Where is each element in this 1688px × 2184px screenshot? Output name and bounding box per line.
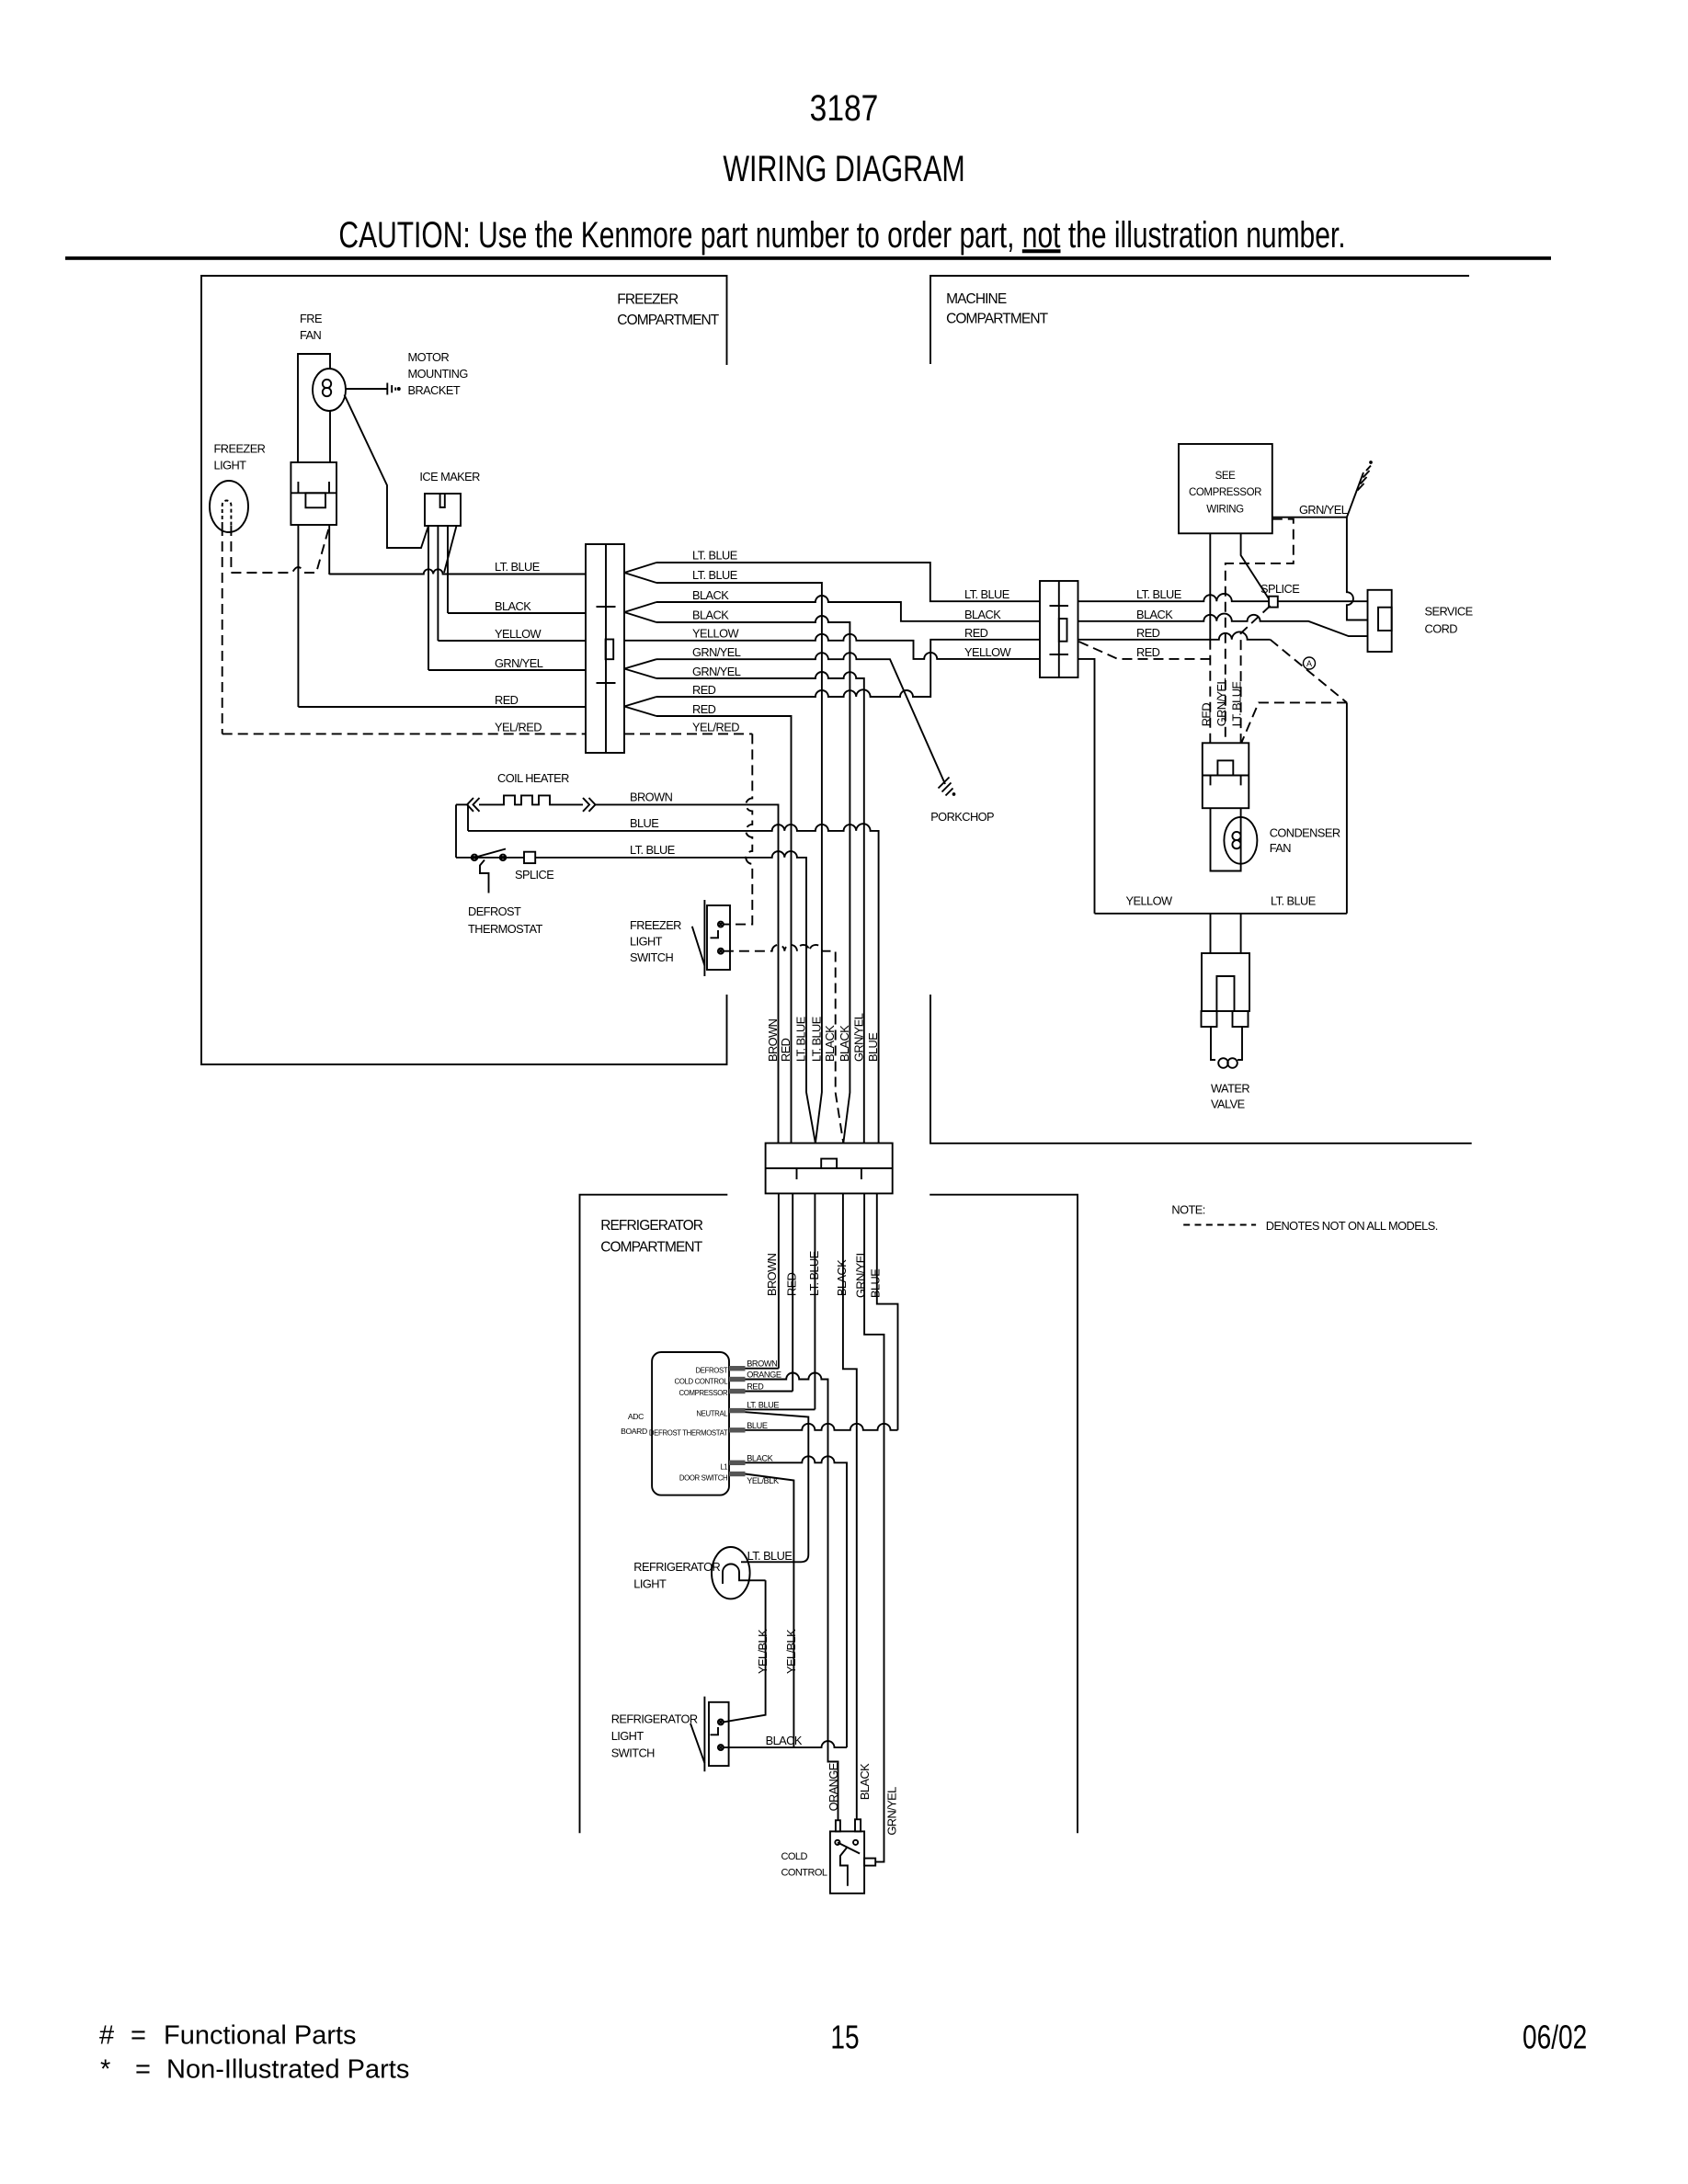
svg-text:ORANGE: ORANGE — [827, 1763, 840, 1811]
svg-text:LT. BLUE: LT. BLUE — [809, 1017, 823, 1062]
svg-text:BLACK: BLACK — [838, 1025, 851, 1062]
svg-text:BLACK: BLACK — [964, 608, 1001, 621]
svg-text:RED: RED — [785, 1272, 799, 1296]
svg-text:LT. BLUE: LT. BLUE — [807, 1251, 821, 1296]
svg-text:RED: RED — [1136, 626, 1160, 640]
svg-text:LT. BLUE: LT. BLUE — [747, 1549, 793, 1563]
svg-text:YEL/RED: YEL/RED — [495, 720, 542, 734]
svg-text:COMPARTMENT: COMPARTMENT — [946, 312, 1049, 327]
svg-text:FREEZER: FREEZER — [214, 441, 266, 455]
svg-text:MACHINE: MACHINE — [946, 291, 1007, 307]
svg-text:LIGHT: LIGHT — [611, 1729, 644, 1743]
svg-text:RED: RED — [692, 683, 716, 697]
svg-text:L1: L1 — [720, 1462, 727, 1471]
svg-text:15: 15 — [830, 2019, 859, 2055]
svg-text:WATER: WATER — [1211, 1082, 1249, 1096]
svg-text:REFRIGERATOR: REFRIGERATOR — [611, 1712, 698, 1726]
svg-text:DENOTES NOT ON ALL MODELS.: DENOTES NOT ON ALL MODELS. — [1266, 1219, 1438, 1233]
svg-text:LT. BLUE: LT. BLUE — [1230, 682, 1244, 727]
svg-text:NEUTRAL: NEUTRAL — [696, 1410, 728, 1418]
svg-text:BLUE: BLUE — [866, 1033, 880, 1062]
svg-text:LT. BLUE: LT. BLUE — [1136, 587, 1181, 601]
svg-text:GRN/YEL: GRN/YEL — [692, 645, 741, 659]
svg-text:REFRIGERATOR: REFRIGERATOR — [600, 1218, 703, 1234]
svg-text:BLACK: BLACK — [747, 1453, 773, 1462]
svg-text:WIRING DIAGRAM: WIRING DIAGRAM — [723, 148, 964, 189]
svg-text:BLACK: BLACK — [823, 1025, 837, 1062]
svg-text:SPLICE: SPLICE — [1260, 582, 1299, 596]
svg-text:ORANGE: ORANGE — [747, 1371, 781, 1380]
svg-text:THERMOSTAT: THERMOSTAT — [468, 922, 542, 936]
svg-text:BLACK: BLACK — [692, 609, 729, 622]
svg-text:YELLOW: YELLOW — [495, 627, 542, 641]
svg-text:BLACK: BLACK — [495, 599, 531, 613]
svg-text:=: = — [131, 2020, 146, 2050]
svg-text:LIGHT: LIGHT — [214, 459, 247, 472]
svg-text:COLD: COLD — [781, 1851, 808, 1862]
svg-text:BLUE: BLUE — [630, 816, 658, 830]
svg-text:RED: RED — [1136, 645, 1160, 659]
svg-text:RED: RED — [692, 702, 716, 716]
svg-text:YEL/RED: YEL/RED — [692, 720, 739, 734]
svg-text:RED: RED — [747, 1382, 764, 1392]
svg-text:FAN: FAN — [300, 328, 322, 342]
svg-text:COIL HEATER: COIL HEATER — [497, 771, 569, 785]
svg-text:BRACKET: BRACKET — [408, 383, 461, 397]
svg-text:LT. BLUE: LT. BLUE — [630, 843, 675, 857]
svg-text:RED: RED — [779, 1038, 793, 1062]
svg-text:RED: RED — [495, 693, 519, 707]
svg-text:DOOR SWITCH: DOOR SWITCH — [679, 1474, 727, 1483]
svg-text:Functional Parts: Functional Parts — [164, 2020, 357, 2050]
svg-text:DEFROST: DEFROST — [468, 904, 521, 918]
svg-text:LT. BLUE: LT. BLUE — [692, 549, 737, 563]
svg-text:GRN/YEL: GRN/YEL — [692, 665, 741, 678]
svg-text:GRN/YEL: GRN/YEL — [495, 656, 543, 670]
svg-text:FAN: FAN — [1270, 841, 1292, 855]
svg-text:=: = — [135, 2054, 151, 2084]
svg-text:ICE MAKER: ICE MAKER — [419, 470, 480, 483]
svg-text:BLACK: BLACK — [1136, 608, 1173, 621]
svg-text:06/02: 06/02 — [1523, 2019, 1587, 2055]
svg-text:Non-Illustrated Parts: Non-Illustrated Parts — [166, 2054, 409, 2084]
svg-text:BOARD: BOARD — [621, 1427, 647, 1436]
svg-text:SPLICE: SPLICE — [515, 868, 553, 882]
svg-text:SERVICE: SERVICE — [1425, 605, 1473, 619]
svg-text:REFRIGERATOR: REFRIGERATOR — [633, 1560, 720, 1574]
svg-text:YEL/BLK: YEL/BLK — [784, 1629, 798, 1674]
svg-text:LT. BLUE: LT. BLUE — [1271, 893, 1316, 907]
svg-text:YEL/BLK: YEL/BLK — [747, 1476, 780, 1485]
svg-text:BLACK: BLACK — [858, 1763, 872, 1800]
svg-text:DEFROST: DEFROST — [695, 1367, 727, 1375]
svg-text:GRN/YEL: GRN/YEL — [854, 1249, 868, 1298]
svg-text:CORD: CORD — [1425, 622, 1458, 636]
svg-text:CONTROL: CONTROL — [781, 1868, 827, 1879]
svg-text:BLUE: BLUE — [868, 1269, 882, 1298]
svg-text:LT. BLUE: LT. BLUE — [794, 1017, 808, 1062]
svg-text:COLD CONTROL: COLD CONTROL — [675, 1378, 729, 1386]
svg-text:BLACK: BLACK — [692, 588, 729, 602]
svg-text:#: # — [99, 2020, 114, 2050]
svg-text:BROWN: BROWN — [630, 790, 673, 803]
svg-text:ADC: ADC — [628, 1412, 644, 1421]
svg-text:COMPARTMENT: COMPARTMENT — [617, 313, 720, 328]
svg-text:LIGHT: LIGHT — [633, 1577, 667, 1591]
svg-text:SEE: SEE — [1215, 471, 1237, 482]
svg-text:3187: 3187 — [810, 87, 879, 128]
svg-text:BLACK: BLACK — [835, 1259, 849, 1296]
svg-text:BROWN: BROWN — [766, 1018, 780, 1062]
svg-text:BROWN: BROWN — [765, 1253, 779, 1296]
svg-text:FREEZER: FREEZER — [630, 918, 681, 932]
svg-text:*: * — [100, 2054, 110, 2084]
svg-text:MOTOR: MOTOR — [408, 350, 450, 364]
svg-text:PORKCHOP: PORKCHOP — [930, 810, 994, 824]
svg-text:COMPARTMENT: COMPARTMENT — [600, 1240, 703, 1256]
svg-text:FRE: FRE — [300, 312, 322, 325]
svg-text:LT. BLUE: LT. BLUE — [964, 587, 1009, 601]
svg-text:GRN/YEL: GRN/YEL — [1299, 503, 1348, 517]
svg-text:RED: RED — [1200, 703, 1214, 727]
svg-text:CAUTION: Use the Kenmore part: CAUTION: Use the Kenmore part number to … — [338, 215, 1345, 256]
svg-text:SWITCH: SWITCH — [630, 950, 673, 964]
svg-text:A: A — [1306, 659, 1312, 668]
svg-text:CONDENSER: CONDENSER — [1270, 826, 1340, 840]
svg-text:GRN/YEL: GRN/YEL — [1215, 678, 1228, 727]
svg-text:LIGHT: LIGHT — [630, 935, 663, 949]
svg-text:VALVE: VALVE — [1211, 1098, 1245, 1111]
svg-text:BLACK: BLACK — [766, 1734, 803, 1747]
svg-text:MOUNTING: MOUNTING — [408, 367, 468, 381]
svg-text:BLUE: BLUE — [747, 1421, 768, 1430]
svg-text:GRN/YEL: GRN/YEL — [884, 1787, 898, 1836]
svg-text:FREEZER: FREEZER — [617, 292, 679, 308]
svg-text:YEL/BLK: YEL/BLK — [756, 1629, 770, 1674]
svg-text:GRN/YEL: GRN/YEL — [851, 1013, 865, 1062]
svg-text:RED: RED — [964, 626, 988, 640]
svg-text:YELLOW: YELLOW — [692, 627, 740, 641]
svg-text:COMPRESSOR: COMPRESSOR — [1189, 487, 1261, 498]
svg-text:DEFROST THERMOSTAT: DEFROST THERMOSTAT — [649, 1429, 728, 1438]
svg-text:LT. BLUE: LT. BLUE — [692, 568, 737, 582]
svg-text:SWITCH: SWITCH — [611, 1746, 655, 1760]
svg-text:YELLOW: YELLOW — [964, 645, 1012, 659]
svg-text:WIRING: WIRING — [1206, 505, 1244, 516]
svg-text:NOTE:: NOTE: — [1171, 1203, 1204, 1217]
svg-text:COMPRESSOR: COMPRESSOR — [679, 1389, 728, 1397]
svg-text:LT. BLUE: LT. BLUE — [495, 560, 540, 574]
svg-text:BROWN: BROWN — [747, 1359, 777, 1369]
svg-text:LT. BLUE: LT. BLUE — [747, 1400, 779, 1409]
svg-text:YELLOW: YELLOW — [1126, 893, 1174, 907]
